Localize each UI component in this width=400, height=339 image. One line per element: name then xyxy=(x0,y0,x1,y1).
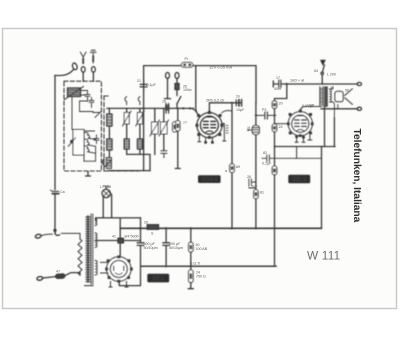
plate line V1 to IF xyxy=(209,103,240,113)
diode tap V2 xyxy=(275,123,289,125)
filament taps xyxy=(101,262,109,273)
coil L1 xyxy=(65,87,84,100)
small value labels xyxy=(56,57,349,279)
trimmer C2 xyxy=(94,135,99,144)
svg-text:20: 20 xyxy=(279,102,283,106)
svg-text:Telefunken, Italiana: Telefunken, Italiana xyxy=(351,129,362,223)
wire sockets into coil box xyxy=(83,72,93,81)
svg-text:16: 16 xyxy=(162,100,166,104)
tube V1 electrode pads xyxy=(196,111,224,139)
rectifier pads xyxy=(105,255,133,282)
mains aerial plug P2 xyxy=(175,73,179,79)
wire antenna plug to left rail xyxy=(55,69,74,75)
switch contact mid xyxy=(93,112,101,118)
anode return line xyxy=(275,146,336,148)
earth socket xyxy=(92,67,96,73)
svg-text:40m: 40m xyxy=(274,87,281,91)
anode drop V1 xyxy=(231,103,233,229)
svg-text:41: 41 xyxy=(112,235,116,239)
svg-text:750 Ω: 750 Ω xyxy=(196,275,206,279)
trimmer C4 xyxy=(136,111,145,126)
capacitor C2n xyxy=(236,100,241,106)
coil L5 band xyxy=(106,158,111,169)
wire mixer link A xyxy=(127,154,150,170)
trimmer C1b xyxy=(89,98,94,106)
svg-text:89: 89 xyxy=(236,165,240,169)
antenna symbol xyxy=(80,52,86,63)
coil L4 xyxy=(107,139,112,150)
screen stub xyxy=(222,111,232,113)
coil L3 osc xyxy=(107,114,112,126)
tube V2 pins xyxy=(295,135,312,158)
node dots return xyxy=(165,265,167,267)
svg-text:P3: P3 xyxy=(262,108,266,112)
heater bus under tuning xyxy=(107,107,194,109)
svg-text:26: 26 xyxy=(247,175,251,179)
svg-text:S.Ω.Tr: S.Ω.Tr xyxy=(190,262,201,266)
speaker terminal 1 xyxy=(357,82,361,85)
wire output to bus xyxy=(321,147,323,229)
wire plug2 to fuse xyxy=(43,277,56,278)
ground return line xyxy=(141,265,276,267)
capacitor C21 on rail xyxy=(140,80,147,91)
rectifier anode bars xyxy=(114,266,124,270)
speaker symbol xyxy=(335,89,353,105)
rectifier tube V3 outer xyxy=(107,257,131,281)
band switch S2b xyxy=(138,97,140,105)
svg-text:Ca: Ca xyxy=(60,190,65,194)
svg-text:0,1µF: 0,1µF xyxy=(147,83,157,87)
gang capacitor section a xyxy=(150,120,160,136)
anode pin V1 xyxy=(222,124,226,142)
svg-text:EBL 1: EBL 1 xyxy=(292,177,306,183)
heater winding xyxy=(95,233,97,247)
capacitor C26 xyxy=(249,179,256,188)
wire trimmer column2 xyxy=(139,108,141,154)
tube V2 outer xyxy=(288,112,312,136)
svg-text:77: 77 xyxy=(183,121,187,125)
AVC feed elbow xyxy=(275,84,287,101)
wire left rail down xyxy=(54,76,56,190)
tube V1 inner electrode circle xyxy=(200,116,218,134)
resistor R89 xyxy=(230,164,235,173)
shield ground tick xyxy=(86,171,91,176)
pin label ticks xyxy=(226,126,228,134)
capacitor C16 xyxy=(165,104,169,114)
dashed shield box oscillator coils xyxy=(104,96,138,171)
power transformer primary xyxy=(86,216,90,282)
rectifier heater arc xyxy=(115,273,122,275)
svg-text:82: 82 xyxy=(263,151,267,155)
svg-text:24: 24 xyxy=(279,125,283,129)
wire L1 links xyxy=(80,91,92,108)
wire gang links xyxy=(155,108,164,154)
svg-text:50/10µm: 50/10µm xyxy=(169,246,183,250)
svg-text:81: 81 xyxy=(260,191,264,195)
switch flag xyxy=(321,60,326,65)
svg-text:12V 0,05 mA: 12V 0,05 mA xyxy=(209,65,232,70)
coil L2 winding bumps xyxy=(84,132,96,161)
electrolytic C1 xyxy=(119,218,143,286)
svg-text:L 200: L 200 xyxy=(327,73,336,77)
resistor R40 xyxy=(190,228,192,242)
wire osc column xyxy=(108,108,110,158)
svg-text:56: 56 xyxy=(345,89,349,93)
fuse F2 lozenge xyxy=(55,274,65,279)
tube V2 pads xyxy=(287,110,314,137)
resistor R24 xyxy=(272,124,277,132)
capacitor P3 xyxy=(265,112,268,119)
speaker line bottom xyxy=(321,108,358,110)
svg-text:54: 54 xyxy=(314,69,318,73)
lamp wires xyxy=(103,192,111,218)
svg-text:W 111: W 111 xyxy=(307,249,340,263)
bus node dots xyxy=(139,227,141,229)
svg-text:10µF: 10µF xyxy=(236,108,245,112)
resistor R77 xyxy=(177,108,179,120)
transformer core xyxy=(325,87,328,107)
speaker terminal 2 xyxy=(357,107,361,110)
mains plug 1 xyxy=(35,234,42,239)
speaker line top xyxy=(273,81,357,87)
capacitor Ca on left rail xyxy=(50,190,58,194)
coil L2 form xyxy=(73,130,84,156)
tube V2 inner xyxy=(292,115,309,132)
resistor heater xyxy=(118,238,123,243)
wire trimmer column xyxy=(126,108,128,154)
coil L7 xyxy=(137,139,142,149)
resistor R osc grid xyxy=(173,122,178,132)
svg-text:2n: 2n xyxy=(236,95,240,99)
grid entry V2 xyxy=(300,107,322,113)
dipole plug P1 xyxy=(166,73,170,79)
HT bus right run xyxy=(120,227,321,229)
fuse Pr xyxy=(181,62,193,67)
heater link to R xyxy=(95,240,118,242)
padder capacitor xyxy=(161,151,167,158)
svg-text:a: a xyxy=(225,169,227,173)
transformer core lines xyxy=(91,214,93,284)
aux antenna plug xyxy=(72,62,78,70)
rectifier inner xyxy=(110,261,127,278)
svg-text:100w: 100w xyxy=(183,88,192,92)
label box V2 xyxy=(288,175,310,184)
svg-text:17: 17 xyxy=(276,76,280,80)
ballast hatched box xyxy=(147,225,158,230)
resistor R24b xyxy=(190,266,192,270)
svg-text:6Ω: 6Ω xyxy=(309,104,314,108)
band switch S2a xyxy=(125,97,127,105)
tube V1 ECH outer xyxy=(197,113,222,138)
wire top supply line 12V xyxy=(144,66,256,109)
electrolytic C2 xyxy=(163,228,169,266)
rectifier pins xyxy=(109,282,128,288)
tube V2 grids xyxy=(295,116,306,127)
cathode chain V2 xyxy=(274,147,276,167)
wire L2 links xyxy=(84,131,96,161)
wire speaker drops xyxy=(332,87,337,119)
resistor R20 xyxy=(272,101,277,109)
branch to V2 grid xyxy=(256,114,264,116)
svg-text:20: 20 xyxy=(144,221,148,225)
svg-text:21: 21 xyxy=(137,79,141,83)
wire bottom tuning xyxy=(108,170,150,172)
RF choke Fe xyxy=(176,79,178,84)
dropper resistor zigzag xyxy=(62,233,81,239)
tube V1 pins xyxy=(198,136,214,144)
trimmer C1a xyxy=(85,92,90,100)
mains plug 2 xyxy=(37,276,43,281)
switch S3 xyxy=(177,90,181,104)
svg-text:19: 19 xyxy=(330,86,334,90)
svg-text:H: H xyxy=(248,126,251,130)
svg-text:2Pb 0,2 ch: 2Pb 0,2 ch xyxy=(206,99,224,103)
svg-text:L7 L88: L7 L88 xyxy=(100,185,111,189)
mains switch hook xyxy=(55,233,60,236)
wire fuse to dropper xyxy=(65,273,80,276)
resistor R43 xyxy=(272,166,277,175)
antenna socket xyxy=(81,67,85,73)
wire interbox links xyxy=(72,97,93,130)
node dots heater bus xyxy=(182,107,184,109)
switch S4 xyxy=(322,65,324,84)
switch S2 xyxy=(103,159,111,167)
label box V3 xyxy=(147,274,169,283)
svg-text:0,1µF: 0,1µF xyxy=(262,162,272,166)
svg-text:8/4 5000: 8/4 5000 xyxy=(125,235,139,239)
svg-text:47: 47 xyxy=(56,270,60,274)
rectifier winding xyxy=(95,261,97,275)
svg-text:1kΩ + at: 1kΩ + at xyxy=(290,79,305,83)
dashed shield box antenna coils xyxy=(64,81,101,171)
capacitor C17 xyxy=(279,80,281,87)
svg-text:50/10µm: 50/10µm xyxy=(144,246,158,250)
pilot lamp winding xyxy=(95,219,97,226)
grid/heater feed into V1 xyxy=(196,66,200,116)
core dot xyxy=(70,140,73,143)
pilot lamp xyxy=(102,189,110,197)
IF coupling H xyxy=(255,103,257,229)
output transformer primary ladder xyxy=(320,87,323,107)
gang capacitor section b xyxy=(159,120,169,136)
wire transformer drops xyxy=(325,106,335,146)
capacitor C82 xyxy=(262,155,321,162)
svg-text:AZ 1: AZ 1 xyxy=(153,276,164,282)
output transformer secondary xyxy=(329,89,332,102)
label box V1 xyxy=(198,175,221,183)
wire dipole stub xyxy=(165,79,171,99)
tube V1 grids xyxy=(204,117,216,128)
svg-text:ECH 4: ECH 4 xyxy=(201,177,217,183)
earth terminal symbol xyxy=(90,50,96,63)
resistor R81 xyxy=(254,190,259,199)
svg-text:0,5µF: 0,5µF xyxy=(248,185,258,189)
transformer top link xyxy=(96,218,141,256)
svg-text:100 AB: 100 AB xyxy=(196,247,208,251)
trimmer C3 xyxy=(123,111,132,126)
coil L6 xyxy=(124,139,129,149)
